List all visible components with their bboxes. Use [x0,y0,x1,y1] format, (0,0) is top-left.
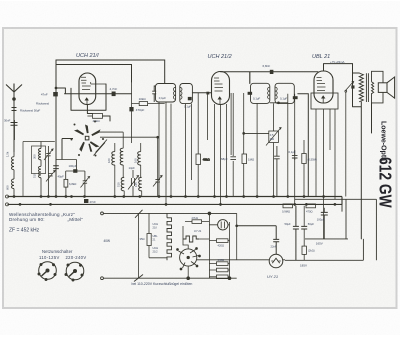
knob 110 [38,262,56,281]
junction dots bus [13,195,337,206]
svg-text:UY 21: UY 21 [267,274,278,279]
mains selector rotary [177,248,201,270]
svg-text:21/2: 21/2 [153,249,159,253]
svg-text:470pF: 470pF [136,108,145,112]
cap 47nF on bus [84,199,88,203]
svg-text:1,5k: 1,5k [6,151,10,157]
svg-text:6,8nF: 6,8nF [263,64,271,68]
terminal ant [6,195,9,198]
svg-text:165V: 165V [316,242,323,246]
svg-text:1MΩ: 1MΩ [248,157,255,161]
svg-text:50µF: 50µF [308,222,315,226]
svg-text:Loewe-Opta: Loewe-Opta [380,121,387,161]
coil L3 osc [112,143,115,197]
trimmer C2 [44,146,55,197]
wire heater line [197,259,285,261]
resistor 6,8k [64,179,68,196]
svg-text:600: 600 [6,185,10,190]
svg-text:14pF: 14pF [129,166,136,170]
svg-text:35Ω: 35Ω [140,237,145,241]
capacitor 22nF [237,226,280,254]
mains bus top [101,212,237,280]
resistor 27k [185,220,209,224]
switch mains b [134,275,143,282]
knob 220 [65,262,84,281]
svg-text:50µF: 50µF [285,222,292,226]
svg-text:612 GW: 612 GW [375,157,394,208]
resistor 10k [134,102,165,106]
svg-text:110-125V: 110-125V [39,255,60,260]
svg-text:40pF: 40pF [58,175,65,179]
svg-text:UCH: UCH [153,246,159,250]
capacitor 6,8nF [270,70,274,74]
svg-text:UCH 21/2: UCH 21/2 [208,54,232,60]
svg-text:68pF: 68pF [221,157,228,161]
tube U3 [311,71,338,109]
svg-text:0,1µF: 0,1µF [280,96,287,100]
wire to speaker [361,102,371,239]
svg-text:0,9MΩ: 0,9MΩ [282,209,290,213]
wire spider to osc [94,132,158,155]
wire antenna to grid [14,120,16,140]
terminal earth [6,203,9,206]
potentiometer 0,5M [266,128,281,146]
svg-text:220-240V: 220-240V [66,255,87,260]
svg-text:300: 300 [33,154,37,159]
svg-text:6,8kΩ: 6,8kΩ [69,182,76,186]
capacitor 100pF [53,160,85,181]
heater chain [167,213,172,260]
svg-text:100µF: 100µF [317,218,325,222]
svg-text:420Ω: 420Ω [218,243,225,247]
trimmer C osc [81,177,90,197]
svg-text:„Mittel“: „Mittel“ [68,217,84,222]
resistor 47k [87,114,102,119]
svg-text:47nF: 47nF [41,93,48,97]
svg-text:40W: 40W [104,239,111,243]
capacitor det2 [292,150,298,160]
coil L5 osc [138,143,142,197]
resistor 420 lamp [209,239,229,243]
resistor 43k [196,154,200,165]
wire osc junction [132,82,134,143]
svg-text:(2kΩ): (2kΩ) [308,248,315,252]
svg-text:Drehung um 90:: Drehung um 90: [9,217,45,222]
svg-text:ZF = 452 kHz: ZF = 452 kHz [9,228,40,234]
svg-text:100pF: 100pF [69,164,77,168]
resistor 0,55M [302,154,306,164]
speaker LS [372,71,395,103]
power box top wires [285,199,376,260]
dial lamp [209,220,229,230]
border frame [0,0,1,1]
capacitor 100uF [321,208,328,239]
junction dot [235,224,238,227]
svg-text:0,1µF: 0,1µF [253,96,260,100]
coil L2 [39,142,41,197]
spider wave switch S1 [62,121,104,160]
svg-text:22nF: 22nF [271,245,277,249]
capacitor 68pF [230,157,236,160]
svg-text:4,7nF: 4,7nF [110,87,118,91]
svg-text:185V: 185V [300,264,307,268]
capacitor 50uF a [293,226,299,229]
tube U1 [79,73,106,105]
svg-text:Netzumschalter: Netzumschalter [42,249,73,254]
svg-text:0,5: 0,5 [270,133,274,137]
capacitor 470pF [129,107,133,111]
variable capacitor osc [128,170,139,197]
wire anode T1 to IF [56,84,132,121]
svg-text:0,1µF: 0,1µF [159,96,166,100]
resistor 2k [302,206,306,260]
svg-text:47nF: 47nF [90,200,97,204]
wire switch verticals [139,213,237,278]
heater UY wavy [183,236,199,242]
svg-text:10kΩ: 10kΩ [139,97,147,101]
wire top bus [56,60,165,84]
resistor 0,9M [283,204,293,208]
svg-text:160: 160 [107,158,111,163]
IF transformer T2a [251,83,270,103]
node A [55,60,57,197]
transformer T [359,73,374,102]
wire anode T2 line [221,72,319,84]
mid verticals [159,72,335,239]
bus B [8,197,343,205]
resistor 1M [242,154,247,164]
IF transformer T2b [275,83,294,103]
antenna [6,84,22,153]
wire top sub [56,65,132,83]
trimmer right [153,137,162,196]
tube U2 [212,72,230,105]
svg-text:UCH 21/I: UCH 21/I [76,53,99,59]
svg-text:21/I: 21/I [153,225,158,229]
IF transformer T1a [152,84,175,103]
shield box [23,142,55,197]
svg-text:30nF: 30nF [4,119,11,123]
switch mains a [135,210,143,218]
svg-text:470Ω: 470Ω [306,209,313,213]
rectifier UY21 [269,254,283,268]
vertical text logo [375,121,394,208]
wire UBL anode top [324,64,362,107]
wire plate right [298,94,309,197]
bus A chassis [8,196,343,198]
svg-text:UY 21: UY 21 [194,229,202,233]
svg-text:UBL: UBL [153,234,159,238]
svg-text:43kΩ: 43kΩ [203,158,211,162]
wire grid2 cap [206,92,209,95]
svg-text:140Ω: 140Ω [218,258,225,262]
resistor 50 [209,275,229,279]
svg-text:Rückwand: Rückwand [36,102,50,106]
IF transformer T1b [180,84,193,104]
resistor 420 [306,204,316,208]
capacitor 50uF b [296,206,307,260]
capacitor det1 [274,146,280,197]
resistor 75 [209,268,229,272]
wire detector links [244,103,288,134]
svg-text:UBL 21: UBL 21 [312,54,330,60]
svg-text:+7V+33mA: +7V+33mA [330,60,345,64]
wire grid T2 [192,92,211,94]
svg-text:UCH: UCH [153,222,159,226]
svg-text:160: 160 [134,158,138,163]
switch tone [345,82,355,197]
svg-text:Rückwand 50pF: Rückwand 50pF [20,109,41,113]
svg-text:27kΩ: 27kΩ [192,216,198,220]
svg-text:0,1µF: 0,1µF [289,150,296,154]
svg-text:47kΩ: 47kΩ [93,119,101,123]
svg-text:510: 510 [117,182,121,187]
svg-text:MΩ: MΩ [270,137,274,141]
svg-text:(0,55M): (0,55M) [308,157,317,161]
resistor 140 [209,262,229,266]
resistor 35 [147,234,151,246]
coil L4 osc [120,132,124,196]
coil L1 [11,92,14,197]
svg-text:bei 110-220V Kurzschlußbügel e: bei 110-220V Kurzschlußbügel einlöten [132,282,193,286]
